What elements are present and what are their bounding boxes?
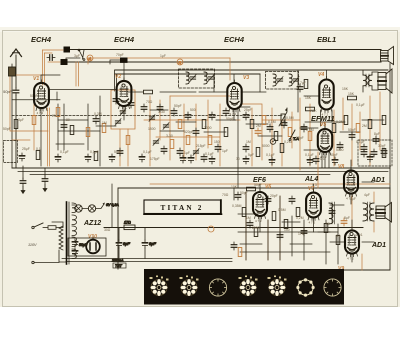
antenna series capacitor 50pF <box>13 88 19 96</box>
power transformer secondary winding 1 <box>72 203 77 213</box>
svg-text:30Ω: 30Ω <box>104 228 111 232</box>
svg-text:0,5M: 0,5M <box>306 128 314 132</box>
antenna <box>11 49 22 88</box>
svg-text:8μF: 8μF <box>123 241 130 246</box>
svg-text:0,1μF: 0,1μF <box>356 103 365 107</box>
filter cap 8uF no1 <box>116 228 130 259</box>
svg-text:AD1: AD1 <box>371 242 386 249</box>
svg-text:4 7 2: 4 7 2 <box>322 113 329 117</box>
resistor RH62 <box>306 107 315 111</box>
svg-text:0,1μF: 0,1μF <box>90 150 99 154</box>
svg-text:7ΩK: 7ΩK <box>310 109 317 113</box>
capacitor CV69 <box>265 196 271 204</box>
resistor RV70 <box>272 212 276 221</box>
resistor RV74 <box>296 208 300 217</box>
capacitor CV54 <box>349 132 355 140</box>
capacitor CV9 <box>113 96 119 104</box>
svg-text:4 7 2: 4 7 2 <box>119 109 126 113</box>
electrolytic capacitor EV85 <box>55 154 60 162</box>
capacitor CV98 <box>361 149 367 157</box>
coupling coil L1 <box>9 67 16 76</box>
trimmer capacitor TR17 <box>149 115 155 122</box>
svg-text:0,1: 0,1 <box>36 147 41 151</box>
resistor RV68 <box>254 228 258 237</box>
capacitor CV11 <box>128 100 134 108</box>
svg-text:3μF: 3μF <box>18 118 24 122</box>
svg-text:AZ12: AZ12 <box>83 220 101 227</box>
resistor RV55 <box>356 124 360 133</box>
svg-text:EBL1: EBL1 <box>317 35 336 44</box>
electrolytic capacitor EV89 <box>139 154 144 162</box>
electrolytic capacitor EV86 <box>85 154 90 162</box>
capacitor CV43 <box>281 120 287 128</box>
input filter dashed box <box>4 141 18 163</box>
capacitor CV56 <box>361 144 367 152</box>
resistor RV1 <box>56 108 60 117</box>
bus drop wire x115 <box>115 70 117 91</box>
tube V7 AL4 <box>306 190 321 225</box>
indicator circle R <box>177 59 183 65</box>
svg-text:V10: V10 <box>88 234 97 240</box>
capacitor CV14 <box>117 148 123 156</box>
resistor RV84 <box>36 151 40 160</box>
capacitor CV77 <box>329 208 335 216</box>
trimmer capacitor TR12 <box>115 119 121 126</box>
power transformer primary winding <box>52 222 66 262</box>
svg-text:17Ω: 17Ω <box>124 221 131 225</box>
resistor RV4 <box>86 128 90 137</box>
svg-text:25μF: 25μF <box>22 147 30 151</box>
left vertical bus wire <box>11 64 13 168</box>
svg-text:7μF: 7μF <box>300 81 306 85</box>
svg-text:2M: 2M <box>52 114 57 118</box>
svg-text:110V: 110V <box>28 243 37 247</box>
svg-text:2M: 2M <box>256 124 261 128</box>
svg-text:1M: 1M <box>246 140 251 144</box>
svg-text:50pF: 50pF <box>114 150 122 154</box>
tube V1 ECH4 <box>34 80 49 115</box>
capacitor CV75 <box>301 228 307 236</box>
svg-text:70Ω: 70Ω <box>146 100 153 104</box>
resistor RV63 <box>304 80 308 89</box>
svg-text:520pF: 520pF <box>184 130 194 134</box>
component value annotations <box>3 53 386 238</box>
svg-text:5μF: 5μF <box>248 153 254 157</box>
svg-text:2000: 2000 <box>204 126 212 130</box>
svg-text:15K: 15K <box>305 96 312 100</box>
electrolytic capacitor EV96 <box>332 157 337 165</box>
HT rail wire <box>104 227 363 229</box>
lamp wire with arrow <box>72 203 119 209</box>
svg-text:0,1μF: 0,1μF <box>60 150 69 154</box>
svg-text:ECH4: ECH4 <box>31 35 52 44</box>
svg-text:50pF: 50pF <box>240 191 248 195</box>
trimmer capacitor TR10 <box>120 109 126 116</box>
socket ECH4 <box>150 276 169 297</box>
svg-text:50μF: 50μF <box>79 243 88 247</box>
chassis rail 3 <box>30 174 330 176</box>
dial lamp 2 <box>88 205 95 212</box>
svg-text:V1: V1 <box>33 76 39 82</box>
svg-text:V3: V3 <box>243 75 249 81</box>
svg-text:1500: 1500 <box>148 127 156 131</box>
resistor RV3 <box>70 126 74 135</box>
loudspeaker LS2 <box>378 69 392 93</box>
svg-text:0,35M: 0,35M <box>232 204 242 208</box>
resistor RV87 <box>94 152 98 161</box>
TITAN 2 nameplate <box>144 200 222 214</box>
output transformer T2 (EBL1) <box>363 70 378 92</box>
capacitor CV30 <box>209 112 215 120</box>
mains switch <box>32 223 63 229</box>
svg-text:4 7 2: 4 7 2 <box>346 197 353 201</box>
capacitor CV34 <box>223 108 229 116</box>
filter cap 8uF no2 <box>142 228 156 259</box>
power transformer secondary winding 4 <box>72 237 77 247</box>
resistor RH15 <box>144 90 153 94</box>
signal wiring (light ink) <box>10 50 390 270</box>
band switch contacts <box>78 49 85 60</box>
power transformer secondary winding 2 <box>72 215 77 225</box>
capacitor CV2 <box>61 122 67 130</box>
resistor RV66 <box>242 208 246 217</box>
svg-text:ECH4: ECH4 <box>224 35 245 44</box>
svg-text:EF6: EF6 <box>253 177 266 184</box>
svg-text:25pF: 25pF <box>244 108 252 112</box>
capacitor CV99 <box>371 149 377 157</box>
resistor RV31 <box>208 136 212 145</box>
socket AD1 <box>324 279 341 296</box>
connecting wires (dark ink) <box>12 58 384 264</box>
fuse label box <box>111 259 126 269</box>
screen bus wire <box>115 73 260 75</box>
svg-text:70Ω: 70Ω <box>222 193 229 197</box>
svg-text:0,2M: 0,2M <box>296 216 304 220</box>
tube socket panel <box>144 269 344 305</box>
resistor RV13 <box>126 136 130 145</box>
resistor RV25 <box>170 140 174 149</box>
svg-text:3-30: 3-30 <box>166 134 173 138</box>
electrolytic capacitor EV97 <box>367 154 372 162</box>
electrolytic capacitor EV91 <box>188 155 193 163</box>
svg-text:50pF: 50pF <box>348 128 356 132</box>
dial lamp 1 <box>75 205 82 212</box>
svg-text:15K: 15K <box>342 87 349 91</box>
tube V5 EFM11 <box>318 126 332 159</box>
tube V3 ECH4 <box>227 80 241 116</box>
svg-text:R: R <box>179 60 182 65</box>
trimmer capacitor TR23 <box>153 139 159 146</box>
svg-text:0,1μF: 0,1μF <box>266 153 275 157</box>
resistor RV7 <box>32 116 36 125</box>
svg-text:8μF: 8μF <box>374 132 380 136</box>
chassis rail 2 <box>18 171 388 173</box>
capacitor CV20 <box>171 108 177 116</box>
padding capacitor top-left <box>47 55 55 61</box>
AVC bus wire <box>115 69 388 71</box>
resistor RV59 <box>382 116 386 125</box>
resistor RV100 <box>382 149 386 158</box>
rectifier box <box>68 238 106 256</box>
svg-text:4 7 2: 4 7 2 <box>37 111 44 115</box>
svg-text:1M: 1M <box>102 121 107 125</box>
volume potentiometer P1 <box>279 108 288 127</box>
svg-text:A: A <box>88 56 92 61</box>
capacitor CV24 <box>161 146 167 154</box>
mains lower terminal <box>32 261 59 263</box>
socket ECH4 <box>180 276 199 297</box>
resistor RV21 <box>178 120 182 129</box>
resistor RV33 <box>224 128 228 137</box>
svg-text:150: 150 <box>284 228 290 232</box>
resistor RV27 <box>186 136 190 145</box>
svg-text:0,1μF: 0,1μF <box>205 152 214 156</box>
rectifier V10 AZ12 <box>86 236 100 253</box>
capacitor CV73 <box>289 196 295 204</box>
capacitor CV22 <box>185 112 191 120</box>
tone filter dashed box <box>358 140 392 166</box>
indicator circle S <box>208 226 214 232</box>
svg-text:4 7 2: 4 7 2 <box>255 219 262 223</box>
capacitor CV64 <box>297 84 303 92</box>
electrolytic capacitor EV94 <box>269 157 274 165</box>
svg-text:0,1: 0,1 <box>336 234 341 238</box>
svg-text:1M: 1M <box>246 216 251 220</box>
svg-text:4 7 2: 4 7 2 <box>320 155 327 159</box>
trimmer capacitor TR35 <box>193 149 199 156</box>
svg-text:TITAN 2: TITAN 2 <box>161 204 204 212</box>
resistor RV76 <box>324 224 328 233</box>
HT fuse/choke <box>124 221 135 230</box>
electrolytic capacitor EV90 <box>180 155 185 163</box>
capacitor CV52 <box>337 142 343 150</box>
wave change switch <box>289 130 299 141</box>
AL4 output transformer T4 <box>329 202 335 224</box>
loudspeaker LS3 <box>376 203 392 223</box>
svg-text:V5: V5 <box>320 122 326 128</box>
resistor RV38 <box>250 120 254 129</box>
chassis rail 1 <box>12 167 390 169</box>
resistor RH80 <box>247 187 256 191</box>
resistor RV8 <box>14 120 18 129</box>
power transformer secondary winding 3 <box>72 226 77 236</box>
frame aerial top wire <box>70 49 381 51</box>
pickup jack P <box>270 139 276 145</box>
svg-text:80: 80 <box>66 118 70 122</box>
capacitor CV32 <box>215 144 221 152</box>
capacitor CV39 <box>255 128 261 136</box>
socket ECH4 <box>239 276 258 297</box>
resistor RV42 <box>274 132 278 141</box>
tube V9 AD1 <box>345 227 359 260</box>
svg-text:0,5M: 0,5M <box>286 116 294 120</box>
svg-text:250mA: 250mA <box>111 259 124 263</box>
tube V6 EF6 <box>253 189 267 223</box>
svg-text:0,5M: 0,5M <box>278 208 286 212</box>
indicator circle A <box>87 55 93 61</box>
capacitor CV60 <box>381 148 387 156</box>
transformer secondary rail 1 <box>62 258 232 260</box>
resistor RV53 <box>344 116 348 125</box>
resistor RV47 <box>280 144 284 153</box>
svg-text:500: 500 <box>190 108 196 112</box>
trimmer capacitor TR19 <box>163 123 169 130</box>
antenna down wire <box>15 95 17 168</box>
right vertical bus wire <box>389 64 391 189</box>
capacitor CV26 <box>177 148 183 156</box>
svg-text:0,1μF: 0,1μF <box>356 140 365 144</box>
svg-text:10K: 10K <box>231 185 238 189</box>
capacitor CV37 <box>243 112 249 120</box>
resistor RV82 <box>238 248 242 257</box>
capacitor CV41 <box>267 124 273 132</box>
svg-text:30pF: 30pF <box>378 144 386 148</box>
svg-text:15K: 15K <box>348 92 355 96</box>
IF transformer IFT1 <box>179 69 215 88</box>
svg-text:3μF: 3μF <box>74 54 80 58</box>
svg-text:4 7 2: 4 7 2 <box>347 257 354 261</box>
svg-text:2M: 2M <box>362 124 367 128</box>
ground top-left <box>20 166 26 194</box>
power transformer secondary winding 5 <box>72 249 77 259</box>
resistor RV29 <box>202 120 206 129</box>
resistor RV78 <box>336 236 340 245</box>
svg-text:50pF: 50pF <box>296 136 304 140</box>
resistor RV72 <box>284 220 288 229</box>
svg-text:215pF: 215pF <box>196 144 206 148</box>
electrolytic capacitor EV83 <box>19 153 24 161</box>
capacitor CV58 <box>373 136 379 144</box>
capacitor CV50 <box>313 156 319 164</box>
svg-text:150: 150 <box>214 140 220 144</box>
svg-text:0,1μF: 0,1μF <box>143 150 152 154</box>
capacitor CV67 <box>247 220 253 228</box>
electrolytic capacitor EV95 <box>307 157 312 165</box>
resistor RV44 <box>288 128 292 137</box>
svg-text:50pF: 50pF <box>226 117 234 121</box>
transformer secondary rail 2 <box>66 261 232 263</box>
svg-text:1μF: 1μF <box>184 151 190 155</box>
svg-text:0,3M: 0,3M <box>94 112 102 116</box>
smoothing cap 50uF <box>72 239 88 256</box>
svg-text:20pF: 20pF <box>270 194 278 198</box>
svg-text:8μF: 8μF <box>344 216 350 220</box>
resistor RV46 <box>256 148 260 157</box>
tube V4 EBL1 <box>319 77 333 117</box>
svg-text:5000: 5000 <box>262 144 270 148</box>
electrolytic capacitor EV88 <box>109 154 114 162</box>
capacitor CV28 <box>193 128 199 136</box>
svg-text:TET: TET <box>115 264 123 268</box>
output transformer T3 (AD1) <box>363 202 374 221</box>
svg-text:AD1: AD1 <box>370 177 385 184</box>
capacitor CV45 <box>243 144 249 152</box>
svg-text:50: 50 <box>326 222 330 226</box>
socket AZ12 <box>296 278 314 296</box>
power transformer core <box>67 202 70 264</box>
capacitor CV5 <box>93 116 99 124</box>
resistor RV49 <box>308 132 312 141</box>
resistor RV51 <box>332 124 336 133</box>
svg-text:50pF: 50pF <box>174 104 182 108</box>
tube V8 AD1 <box>344 167 358 200</box>
svg-text:0,1μF: 0,1μF <box>305 153 314 157</box>
block capacitor top2 <box>61 59 68 65</box>
svg-text:V6: V6 <box>265 184 271 190</box>
capacitor CV79 <box>341 218 347 226</box>
svg-text:3-30: 3-30 <box>158 110 165 114</box>
block capacitor top3 <box>120 58 128 63</box>
block capacitor top1 <box>64 47 71 53</box>
svg-text:0,3M: 0,3M <box>336 120 344 124</box>
svg-text:4 7 2: 4 7 2 <box>230 112 237 116</box>
svg-text:6V 0,3A: 6V 0,3A <box>106 203 119 207</box>
svg-text:50pF: 50pF <box>330 153 338 157</box>
capacitor CV81 <box>231 242 237 250</box>
svg-text:AL4: AL4 <box>304 176 318 183</box>
svg-text:175pF: 175pF <box>150 157 160 161</box>
svg-text:70pF: 70pF <box>116 53 124 57</box>
resistor RV40 <box>262 116 266 125</box>
capacitor CV71 <box>277 232 283 240</box>
tube V2 ECH4 <box>117 78 132 113</box>
AVC dashed feedback wire <box>12 115 282 117</box>
svg-text:8μF: 8μF <box>149 241 156 246</box>
svg-text:2500: 2500 <box>252 226 260 230</box>
frame aerial transducer <box>381 47 394 65</box>
audio section box wire <box>118 188 390 270</box>
socket EBL1 <box>209 279 226 296</box>
svg-text:30: 30 <box>236 157 240 161</box>
svg-text:V4: V4 <box>318 72 324 78</box>
svg-text:50pF: 50pF <box>3 127 11 131</box>
svg-text:1μF: 1μF <box>160 54 166 58</box>
resistor RH61 <box>348 96 357 100</box>
electrolytic capacitor EV93 <box>243 156 248 164</box>
svg-text:50pF: 50pF <box>3 89 13 94</box>
svg-text:V2: V2 <box>115 74 121 80</box>
svg-text:0,2M: 0,2M <box>284 140 292 144</box>
svg-text:V8: V8 <box>338 164 344 170</box>
electrolytic capacitor EV92 <box>209 156 214 164</box>
resistor RV57 <box>368 120 372 129</box>
frame aerial bottom wire <box>68 61 381 63</box>
svg-text:5000: 5000 <box>336 148 344 152</box>
ground at chassis rail <box>42 168 48 192</box>
svg-text:1μF: 1μF <box>222 149 228 153</box>
svg-text:4μF: 4μF <box>364 193 370 197</box>
IF transformer IFT2 <box>266 72 300 90</box>
capacitor CV48 <box>301 124 307 132</box>
capacitor CV18 <box>157 104 163 112</box>
svg-text:ECH4: ECH4 <box>114 35 135 44</box>
svg-text:175: 175 <box>298 232 304 236</box>
socket EFM11 <box>268 276 287 297</box>
svg-text:0,1M: 0,1M <box>268 120 276 124</box>
capacitor CV36 <box>201 154 207 162</box>
capacitor CV65 <box>235 192 241 200</box>
svg-text:4 7 2: 4 7 2 <box>309 220 316 224</box>
capacitor CV16 <box>141 104 147 112</box>
resistor RV6 <box>102 124 106 133</box>
